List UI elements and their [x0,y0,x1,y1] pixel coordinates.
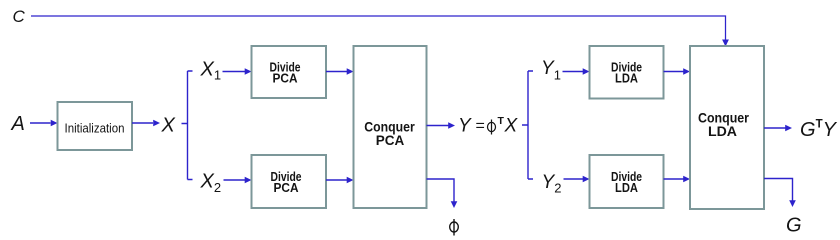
wire C to Conquer LDA [31,16,729,47]
svg-text:PCA: PCA [376,132,405,148]
arrow Conquer PCA to Y [427,122,456,129]
block Divide LDA bottom [590,155,664,208]
svg-text:T: T [498,115,505,127]
svg-text:LDA: LDA [615,72,638,86]
arrow Initialization to X [132,120,160,127]
wire Conquer LDA to G output [764,179,796,208]
wire Conquer PCA to phi output [427,179,458,208]
block Initialization [58,102,133,150]
arrow Divide LDA bottom to Conquer LDA [664,176,691,183]
block Divide PCA bottom [252,155,327,208]
svg-text:PCA: PCA [274,181,299,195]
arrow Y1 to Divide LDA top [563,68,590,75]
svg-text:X: X [504,116,519,137]
block Conquer PCA [354,46,427,208]
arrow Divide LDA top to Conquer LDA [664,68,691,75]
label Y = phiT X [458,115,519,137]
svg-text:=: = [476,118,485,135]
arrow Divide PCA bottom to Conquer PCA [326,177,354,184]
arrow Divide PCA top to Conquer PCA [326,68,354,75]
svg-text:A: A [11,113,25,135]
arrow Y2 to Divide LDA bottom [564,176,590,183]
arrow A to Initialization [30,120,58,127]
svg-text:LDA: LDA [615,181,638,195]
svg-text:PCA: PCA [273,72,298,86]
svg-text:LDA: LDA [708,123,737,139]
svg-text:X: X [161,115,176,137]
block Divide LDA top [590,46,664,99]
glyph phi in formula [488,120,496,135]
svg-text:Y: Y [458,116,472,137]
block Conquer LDA [690,46,764,209]
svg-text:C: C [13,7,26,26]
arrow X1 to Divide PCA top [223,68,252,75]
svg-text:Initialization: Initialization [65,122,125,136]
arrow X2 to Divide PCA bottom [224,177,252,184]
block Divide PCA top [252,46,327,98]
svg-text:G: G [786,215,802,237]
bracket X split [182,71,193,180]
label phi output [450,219,459,236]
arrow Conquer LDA to GTY [764,125,792,132]
bracket Y split [522,71,533,179]
